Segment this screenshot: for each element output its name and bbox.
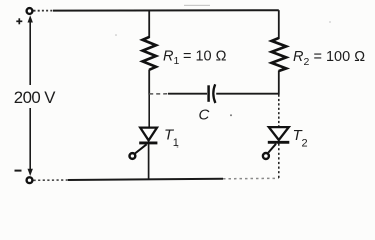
svg-text:C: C <box>199 107 210 124</box>
svg-text:R: R <box>293 49 304 65</box>
svg-text:2: 2 <box>304 56 310 68</box>
svg-text:200 V: 200 V <box>14 88 56 107</box>
svg-text:= 100 Ω: = 100 Ω <box>314 49 366 65</box>
svg-text:R: R <box>163 49 174 65</box>
svg-text:2: 2 <box>302 138 308 150</box>
svg-text:= 10 Ω: = 10 Ω <box>183 49 227 65</box>
svg-text:1: 1 <box>174 55 180 67</box>
